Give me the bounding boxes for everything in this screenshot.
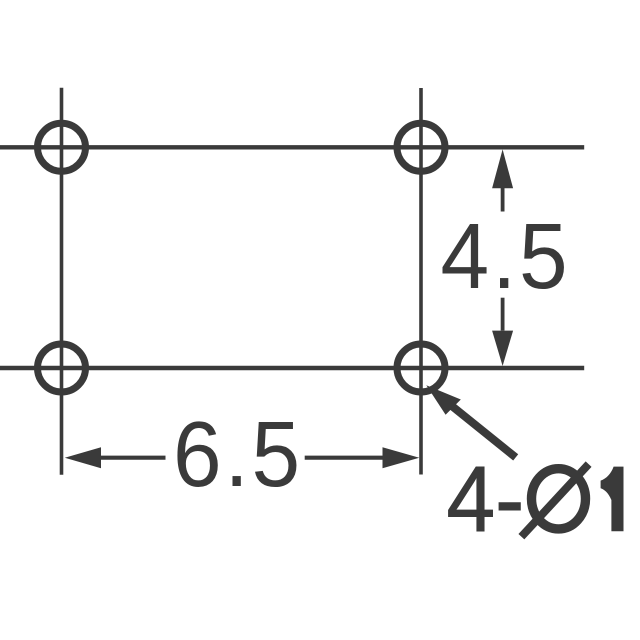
label diameter symbol slash bbox=[521, 464, 588, 537]
dimension 4.5 arrowhead down bbox=[492, 331, 513, 366]
hole bottom-left bbox=[38, 344, 86, 392]
dimension 6.5 line right segment bbox=[305, 456, 383, 460]
hole top-left bbox=[38, 123, 86, 171]
hole bottom-right bbox=[397, 344, 445, 392]
label digit 1 bbox=[601, 467, 624, 532]
svg-text:4-: 4- bbox=[447, 448, 525, 552]
center line bottom horizontal bbox=[0, 366, 584, 370]
center line left vertical bbox=[60, 88, 64, 475]
dimension 6.5 arrowhead left bbox=[65, 447, 101, 468]
center line right vertical bbox=[419, 88, 423, 475]
center line top horizontal bbox=[0, 145, 584, 149]
leader arrowhead bbox=[426, 385, 461, 415]
svg-text:4.5: 4.5 bbox=[441, 205, 571, 309]
dimension 6.5 arrowhead right bbox=[383, 447, 420, 468]
dimension 4.5 extension line upper segment bbox=[501, 188, 505, 212]
svg-text:6.5: 6.5 bbox=[173, 403, 303, 507]
leader arrow shaft bbox=[450, 405, 516, 458]
label diameter symbol circle bbox=[532, 469, 586, 529]
dimension 6.5 line left segment bbox=[101, 456, 166, 460]
hole top-right bbox=[397, 123, 445, 171]
dimension 4.5 extension line lower segment bbox=[501, 298, 505, 331]
dimension 4.5 arrowhead up bbox=[492, 149, 513, 188]
